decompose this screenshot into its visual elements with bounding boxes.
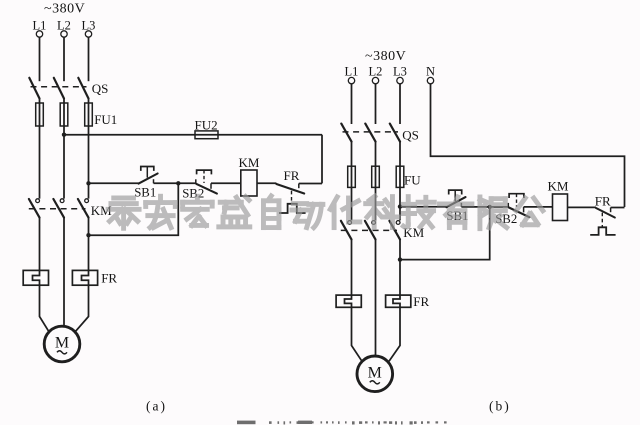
KM linkage (b): [341, 229, 397, 231]
fuse FU pole 3 (b): [396, 166, 404, 187]
svg-text:M: M: [55, 335, 69, 352]
control wire top (a): [64, 134, 322, 136]
wire SB2-KM coil (b): [524, 206, 553, 208]
svg-text:M: M: [368, 365, 382, 382]
wire FR-right (a): [299, 183, 322, 185]
label ~ (a): [57, 351, 67, 354]
disconnect QS pole 2 (a): [54, 78, 64, 99]
wire to SB1 (b): [400, 206, 447, 208]
wire L3 (a) top: [88, 37, 90, 81]
svg-text:L2: L2: [369, 65, 383, 79]
svg-text:L1: L1: [345, 65, 359, 79]
terminal L3 (b): [397, 77, 403, 83]
caption fragment (clipped figure caption): [237, 421, 447, 425]
junction L3/control (a): [86, 181, 90, 185]
wire L1 (a) lower + heater jog: [33, 218, 50, 333]
contactor KM main contact pole 2 (b): [372, 221, 376, 225]
wire L1 (b) lower + heater jog: [345, 239, 363, 361]
wire L3 (b) top: [399, 84, 401, 124]
wire L3 (a) lower + heater jog: [75, 218, 89, 333]
contactor KM main contact pole 3 (a): [85, 199, 89, 203]
motor M (b): [357, 356, 393, 392]
pushbutton SB2 (a) NO start: [195, 179, 197, 183]
thermal relay contact FR (b): [596, 208, 615, 218]
svg-text:FR: FR: [413, 294, 429, 309]
terminal L1 (b): [348, 77, 354, 83]
self-latch branch (b): [400, 207, 490, 260]
fuse FU pole 1 (b): [348, 166, 356, 187]
wire L2 (a) top: [63, 37, 65, 81]
terminal N (b): [427, 77, 433, 83]
wire L2 (b) mid: [375, 141, 377, 220]
terminal L3 (a): [85, 31, 91, 37]
fuse FU1 pole 1: [36, 103, 44, 126]
fuse FU2: [195, 131, 218, 139]
svg-text:QS: QS: [402, 128, 419, 143]
wire SB2-KM coil (a): [211, 182, 241, 184]
contactor coil KM (a): [241, 170, 257, 196]
pushbutton SB1 (a) NC stop: [139, 174, 158, 184]
svg-text:FU1: FU1: [94, 112, 117, 127]
motor M (a): [44, 326, 80, 362]
contactor coil KM (b): [553, 194, 568, 221]
svg-text:L3: L3: [393, 65, 407, 79]
KM linkage (a): [29, 208, 86, 210]
control wire right (a): [321, 135, 323, 184]
wire to SB1 (a): [89, 182, 139, 184]
svg-text:SB2: SB2: [182, 186, 204, 200]
thermal element FR-2 (b): [386, 295, 411, 307]
svg-text:KM: KM: [239, 155, 260, 170]
fuse FU pole 2 (b): [372, 166, 380, 187]
pushbutton SB1 (b) NC stop: [447, 197, 466, 207]
wire L1 (a) mid: [39, 99, 41, 199]
neutral wire N run (b): [431, 84, 625, 207]
junction latch/L3 (b): [398, 257, 402, 261]
terminal L1 (a): [36, 31, 42, 37]
svg-text:~380V: ~380V: [365, 49, 406, 64]
wire L3 (b) mid: [399, 141, 401, 220]
wire L2 (a) lower: [63, 218, 65, 328]
terminal L2 (a): [61, 31, 67, 37]
svg-text:N: N: [426, 65, 435, 79]
self-latch branch (a): [89, 183, 179, 235]
thermal element FR-1 (a): [23, 270, 48, 285]
thermal relay contact FR (a): [276, 184, 304, 194]
svg-text:FU2: FU2: [195, 117, 218, 132]
wire KM coil-FR (a): [257, 182, 276, 184]
wire FR-N corner (b): [611, 207, 625, 209]
wire L2 (a) mid: [63, 99, 65, 199]
wire L1 (b) top: [351, 84, 353, 124]
FR actuator link (a): [291, 191, 293, 203]
svg-text:FR: FR: [101, 271, 117, 286]
disconnect QS pole 3 (b): [390, 124, 400, 142]
disconnect QS pole 1 (b): [341, 124, 351, 142]
svg-text:SB1: SB1: [134, 185, 156, 199]
svg-text:FU: FU: [404, 173, 421, 188]
contactor KM main contact pole 2 (a): [60, 199, 64, 203]
junction node latch (a): [176, 181, 180, 185]
svg-text:(a): (a): [146, 399, 167, 414]
contactor KM main contact pole 1 (a): [36, 199, 40, 203]
QS linkage (a): [31, 86, 87, 88]
wire SB1-SB2 (b): [461, 206, 508, 208]
thermal element FR-2 (a): [72, 270, 97, 285]
wire L2 (b) lower: [375, 239, 377, 356]
thermal element FR-1 (b): [336, 295, 361, 307]
FR release symbol (b): [590, 227, 615, 235]
fuse FU1 pole 3: [85, 103, 93, 126]
watermark band (company name, pseudo-glyph strokes): [108, 196, 543, 229]
svg-text:KM: KM: [548, 178, 569, 193]
junction latch/L3 (a): [86, 233, 90, 237]
disconnect QS pole 1 (a): [29, 78, 39, 99]
junction L3/control (b): [398, 204, 402, 208]
disconnect QS pole 2 (b): [365, 124, 375, 142]
terminal L2 (b): [372, 77, 378, 83]
wire L1 (b) mid: [351, 141, 353, 220]
QS linkage (b): [343, 131, 399, 133]
wire L1 (a) top: [39, 37, 41, 81]
wire L3 (a) mid: [88, 99, 90, 199]
svg-text:~380V: ~380V: [44, 2, 85, 17]
pushbutton SB2 (b) NO start: [507, 203, 509, 207]
contactor KM main contact pole 1 (b): [348, 221, 352, 225]
svg-text:QS: QS: [92, 81, 109, 96]
wire L3 (b) lower + heater jog: [389, 239, 400, 361]
disconnect QS pole 3 (a): [78, 78, 88, 99]
junction L2/control (a): [62, 133, 66, 137]
wire L2 (b) top: [375, 84, 377, 124]
FR release symbol (a): [279, 204, 306, 213]
FR actuator link (b): [601, 213, 603, 227]
svg-text:(b): (b): [489, 399, 511, 414]
junction node latch (b): [488, 205, 492, 209]
label ~ (b): [370, 381, 380, 384]
svg-text:FR: FR: [595, 194, 611, 209]
wire KM coil-FR (b): [568, 206, 597, 208]
contactor KM main contact pole 3 (b): [396, 221, 400, 225]
svg-text:FR: FR: [284, 168, 300, 183]
wire SB1-SB2 (a): [154, 182, 196, 184]
fuse FU1 pole 2: [60, 103, 68, 126]
